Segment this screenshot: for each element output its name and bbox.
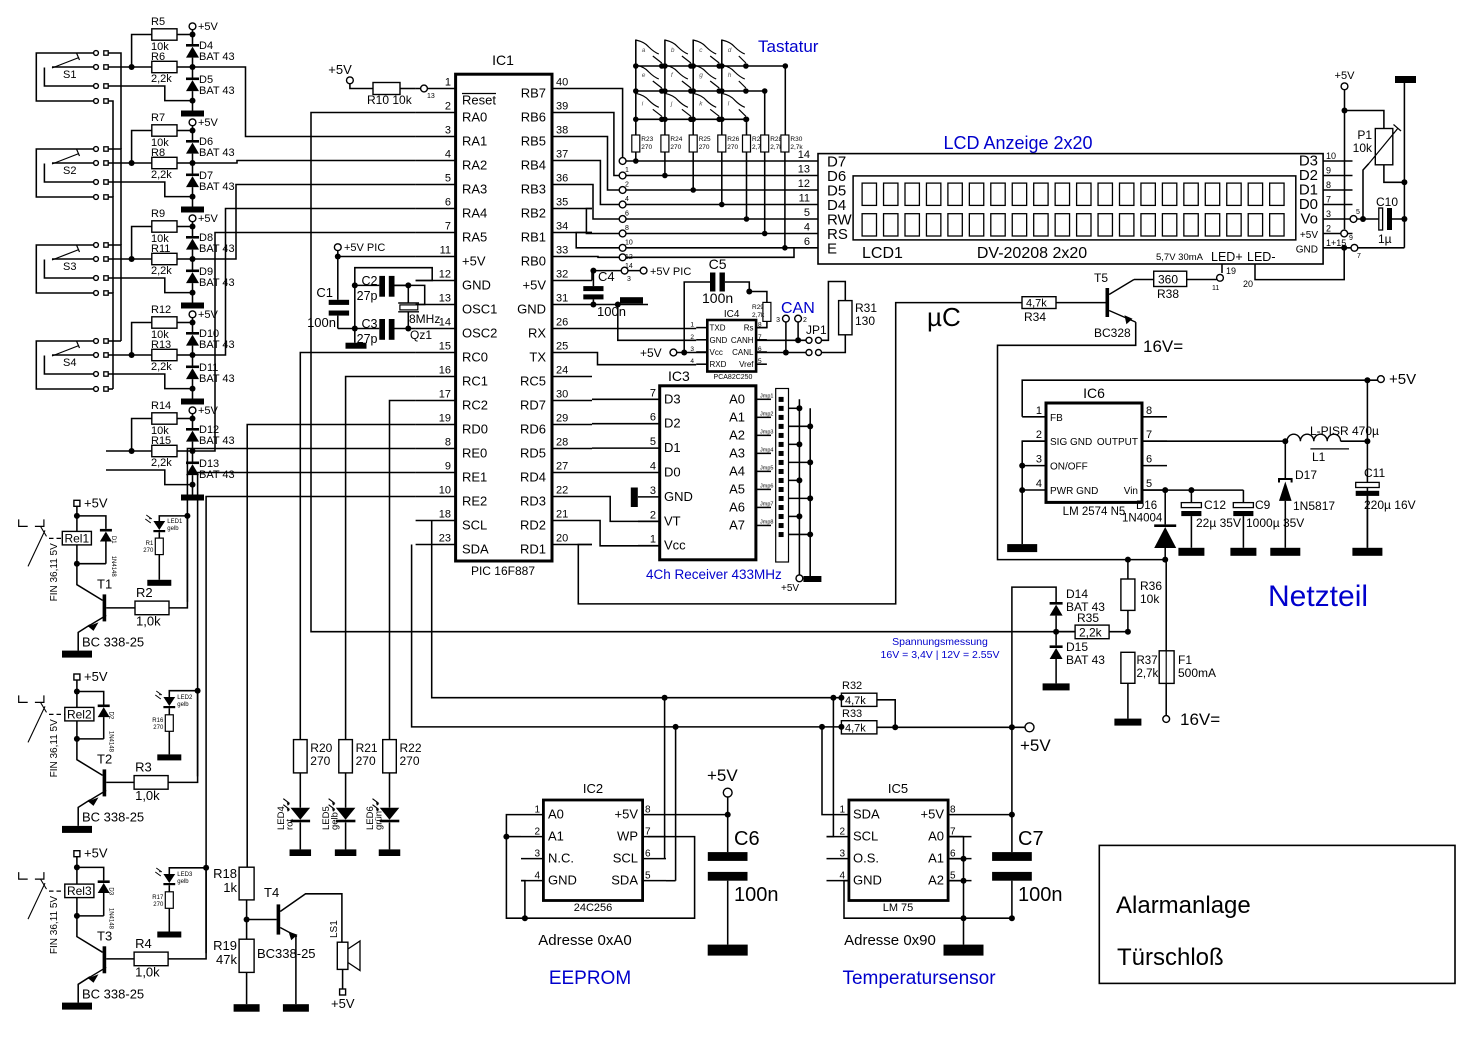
svg-text:+5V: +5V [198, 21, 219, 33]
svg-text:R38: R38 [1157, 287, 1179, 301]
wire RB2 to connector [586, 209, 622, 234]
svg-text:RE2: RE2 [462, 494, 487, 509]
resistor R17 270 [152, 885, 173, 931]
svg-text:1N4004: 1N4004 [1122, 513, 1163, 525]
svg-text:rot: rot [284, 819, 295, 830]
svg-text:270: 270 [310, 754, 330, 768]
svg-text:A2: A2 [928, 873, 944, 888]
IC1 pin 26 RX [528, 317, 592, 341]
node junction SCL R32 [838, 695, 844, 701]
wire collector to R38 [1134, 279, 1154, 281]
svg-text:1: 1 [1036, 405, 1042, 417]
wire CAN pads [797, 322, 799, 340]
node 16V= input terminal [1163, 710, 1220, 729]
op-amp IC6 LM 2574 N5 body [1046, 385, 1142, 518]
svg-text:R1: R1 [146, 541, 154, 547]
svg-text:21: 21 [556, 509, 568, 521]
svg-text:C1: C1 [316, 285, 333, 300]
ground (jumpers) [803, 576, 821, 582]
potentiometer P1 10k [1353, 125, 1401, 165]
IC1 pin 36 RB3 [521, 173, 592, 197]
svg-text:Adresse 0xA0: Adresse 0xA0 [538, 932, 631, 949]
svg-text:+5V: +5V [84, 846, 108, 861]
wire [389, 773, 391, 808]
svg-text:CANL: CANL [732, 348, 754, 357]
svg-text:SDA: SDA [462, 542, 489, 557]
node junction [129, 352, 135, 358]
capacitor C12 22µ 35V [1181, 490, 1241, 548]
svg-text:36: 36 [556, 173, 568, 185]
IC3 pin 3 GND [638, 485, 693, 504]
svg-text:17: 17 [439, 389, 451, 401]
IC1 pin 13 OSC1 [416, 293, 498, 317]
wire jumper rail right (gnd) [809, 408, 811, 576]
IC1 pin 40 RB7 [521, 77, 592, 101]
node +5V terminal (jumpers) [781, 575, 803, 594]
svg-text:1,0k: 1,0k [135, 788, 160, 803]
node junction [830, 695, 836, 701]
node junction [892, 724, 898, 730]
svg-text:Vref: Vref [739, 360, 754, 369]
svg-text:R3: R3 [135, 759, 152, 774]
IC1 pin 28 RD5 [520, 437, 592, 461]
wire to freewheel diode [77, 516, 106, 529]
IC1 pin 7 RA5 [416, 221, 488, 245]
svg-text:gelb: gelb [177, 879, 189, 885]
svg-text:GND: GND [462, 278, 491, 293]
wire keypad rows [636, 65, 786, 67]
wire IC5 GND [844, 881, 964, 945]
node +5V terminal (LS1) [331, 989, 355, 1011]
node junction [782, 245, 788, 251]
svg-text:BAT 43: BAT 43 [199, 339, 235, 351]
node junction [762, 88, 768, 94]
svg-text:26: 26 [556, 317, 568, 329]
wire jumper to rail [789, 407, 800, 409]
svg-text:RD7: RD7 [520, 398, 546, 413]
ground [62, 826, 92, 833]
wire jumper to rail [789, 497, 811, 499]
IC4 pin 5 Vref [739, 358, 767, 369]
svg-text:IC3: IC3 [668, 368, 690, 384]
wire RB1 to connector [576, 233, 622, 248]
switch S3 [36, 243, 108, 296]
transistor T1 BC 338-25 [77, 564, 144, 651]
diode D9 BAT 43 [186, 259, 235, 289]
speaker LS1 [329, 920, 360, 971]
ground [1114, 719, 1141, 726]
svg-text:4: 4 [1036, 478, 1042, 490]
node junction [662, 695, 668, 701]
svg-text:6: 6 [804, 236, 810, 248]
svg-text:+5V: +5V [1300, 230, 1318, 241]
resistor R22 270 [383, 740, 422, 773]
node junction [1401, 179, 1407, 185]
svg-text:R16: R16 [152, 718, 164, 724]
IC2 pin 3 N.C. [521, 849, 574, 866]
wire [350, 84, 373, 89]
svg-text:OSC2: OSC2 [462, 326, 497, 341]
wire OSC1 [395, 285, 425, 304]
node +5V terminal (Rel3) [74, 846, 108, 861]
switch door contact (Rel3) [19, 872, 65, 919]
IC5 pin 4 GND [827, 871, 882, 888]
wire switch common to junction [106, 470, 193, 485]
svg-text:7: 7 [1357, 253, 1361, 260]
wire [1109, 631, 1128, 633]
svg-text:22: 22 [556, 485, 568, 497]
IC4 pin 1 TXD [690, 322, 725, 333]
node +5V terminal (Netzteil output) [1378, 371, 1417, 388]
wire CANL to R31 bottom [822, 335, 846, 353]
IC5 pin 1 SDA [827, 805, 881, 822]
svg-text:14: 14 [439, 317, 451, 329]
ground [283, 1004, 309, 1012]
node pad 8 [619, 216, 629, 232]
wire GND row [1344, 247, 1351, 249]
node +5V terminal (IC4) [640, 346, 677, 360]
svg-text:D16: D16 [1136, 500, 1157, 512]
svg-text:2: 2 [445, 101, 451, 113]
wire 2.7k column risers [746, 119, 748, 135]
wire base T4 [247, 919, 277, 921]
svg-text:R9: R9 [151, 208, 165, 220]
resistor R14 10k [151, 400, 177, 437]
node junction [195, 688, 201, 694]
svg-text:4,7k: 4,7k [845, 695, 866, 707]
svg-text:100n: 100n [597, 304, 626, 319]
svg-text:9: 9 [445, 461, 451, 473]
svg-text:RXD: RXD [710, 360, 727, 369]
wire IC2 SDA up to bus [675, 727, 677, 881]
resistor R10 10k [367, 83, 413, 108]
svg-text:Tastatur: Tastatur [758, 37, 819, 56]
transistor T4 BC338-25 [257, 885, 342, 1004]
svg-text:RA0: RA0 [462, 110, 487, 125]
LCD pin 1+15 GND [1296, 238, 1353, 256]
ground [1270, 548, 1300, 556]
svg-text:270: 270 [356, 754, 376, 768]
node junction [1341, 245, 1347, 251]
node junction [796, 441, 802, 447]
wire jumper rail left (+5V) [798, 399, 800, 575]
svg-text:D3: D3 [108, 887, 114, 895]
svg-text:RC0: RC0 [462, 350, 488, 365]
IC1 pin 31 GND [517, 293, 592, 317]
svg-text:Rel1: Rel1 [64, 531, 89, 545]
svg-text:LED3: LED3 [177, 872, 193, 878]
svg-text:4Ch Receiver 433MHz: 4Ch Receiver 433MHz [646, 567, 782, 582]
node junction [1009, 812, 1015, 818]
LCD pin 13 D6 [798, 164, 846, 186]
svg-text:+5V: +5V [615, 807, 639, 822]
transistor T2 BC 338-25 [77, 739, 144, 826]
IC5 pin 8 +5V [921, 805, 972, 822]
node junction [796, 513, 802, 519]
svg-text:T2: T2 [97, 751, 112, 766]
svg-text:Vcc: Vcc [664, 538, 686, 553]
node junction [1342, 108, 1348, 114]
wire [246, 972, 248, 1004]
svg-text:RB1: RB1 [521, 230, 546, 245]
wire [132, 35, 152, 68]
IC1 pin 23 SDA [416, 533, 489, 557]
wire R38 to LED+ pad [1187, 279, 1217, 281]
wire [345, 773, 347, 808]
resistor R36 10k [1121, 560, 1162, 632]
node junction [1360, 216, 1366, 222]
svg-text:WP: WP [617, 829, 638, 844]
svg-text:IC1: IC1 [492, 52, 514, 68]
svg-text:GND: GND [664, 489, 693, 504]
svg-text:µC: µC [927, 302, 961, 332]
svg-text:8: 8 [1146, 405, 1152, 417]
svg-text:SDA: SDA [611, 873, 638, 888]
wire A0 A1 A2 rail [963, 837, 965, 919]
node junction [961, 856, 967, 862]
wire C7 rail [1011, 727, 1013, 852]
wire FB feedback line [1022, 380, 1377, 417]
resistor R31 130 [839, 301, 878, 335]
node junction [673, 724, 679, 730]
svg-text:27p: 27p [357, 289, 378, 303]
IC6 pin 1 FB [1022, 405, 1063, 424]
wire Vo row [1353, 218, 1379, 220]
node junction [352, 282, 358, 288]
svg-text:IC5: IC5 [888, 781, 908, 796]
diode D4 BAT 43 [186, 35, 235, 68]
svg-text:5: 5 [650, 436, 656, 448]
svg-text:5: 5 [1146, 478, 1152, 490]
svg-text:BC328: BC328 [1094, 326, 1131, 340]
svg-text:RD6: RD6 [520, 422, 546, 437]
node junction [203, 865, 209, 871]
resistor R35 2,2k [1056, 611, 1109, 640]
node junction [190, 98, 196, 104]
node +5V terminal (Rel2) [74, 669, 108, 684]
ground [234, 1004, 260, 1012]
node junction [1009, 915, 1015, 921]
svg-text:SIG GND: SIG GND [1050, 437, 1092, 448]
switch S1 [36, 51, 108, 104]
node +5V terminal (group 3) [189, 213, 218, 227]
wire jumper to rail [789, 515, 800, 517]
svg-text:gelb: gelb [330, 812, 341, 830]
node junction [719, 202, 725, 208]
wire S3 node to IC1 RA3 [193, 185, 416, 260]
resistor R21 270 [339, 740, 378, 773]
IC6 pin 2 SIG GND [1022, 429, 1092, 448]
node junction [74, 913, 80, 919]
LED LED1 gelb [145, 515, 183, 532]
svg-text:25: 25 [556, 341, 568, 353]
node junction [522, 915, 528, 921]
LCD pin 10 D3 [1299, 151, 1353, 170]
IC5 pin 7 A0 [928, 827, 971, 844]
diode D14 BAT 43 [1050, 587, 1106, 632]
svg-text:RX: RX [528, 326, 546, 341]
svg-text:1: 1 [690, 322, 694, 329]
ground [1043, 683, 1070, 690]
wire [299, 773, 301, 808]
wire OUTPUT to L1 [1142, 440, 1287, 442]
wire base [1056, 302, 1106, 304]
node junction [1364, 438, 1370, 444]
wire P1 bottom to gnd bus [1384, 165, 1405, 183]
crystal Qz1 8MHz [398, 285, 440, 342]
IC2 pin 4 GND [521, 871, 577, 888]
wire relay coil to junction [76, 545, 78, 564]
relay Rel1 [62, 531, 91, 545]
svg-text:9: 9 [1349, 235, 1353, 242]
node junction [190, 128, 196, 134]
svg-text:RB4: RB4 [521, 158, 546, 173]
wire keypad columns [635, 40, 637, 136]
svg-text:GND: GND [853, 873, 882, 888]
svg-text:5: 5 [645, 871, 651, 882]
IC1 pin 5 RA3 [416, 173, 488, 197]
wire RX to TXD [592, 328, 696, 330]
svg-text:20: 20 [556, 533, 568, 545]
wire connector row [623, 189, 818, 191]
resistor R5 10k [151, 16, 177, 53]
svg-text:11: 11 [1212, 285, 1219, 292]
svg-text:RD0: RD0 [462, 422, 488, 437]
wire T5 emitter 16V [998, 322, 1167, 559]
svg-text:Jmp6: Jmp6 [760, 483, 773, 489]
wire [177, 418, 193, 420]
title box Alarmanlage Tuerschloss [1099, 845, 1455, 983]
node junction [190, 290, 196, 296]
svg-text:5: 5 [758, 358, 762, 365]
node junction [74, 864, 80, 870]
wire [76, 857, 78, 884]
switch key row1 col2 [662, 40, 694, 69]
svg-text:RC2: RC2 [462, 398, 488, 413]
LED LED4 rot [276, 799, 310, 830]
svg-text:RB5: RB5 [521, 134, 546, 149]
wire RB0 to connector [592, 256, 623, 259]
svg-text:7: 7 [1146, 429, 1152, 441]
ground [379, 849, 401, 856]
wire +5V pin11 [337, 251, 339, 257]
IC3 pin 7 D3 [592, 387, 681, 406]
wire switch bus [108, 245, 121, 341]
wire switch bus [108, 149, 121, 245]
wire connector row [623, 175, 818, 177]
svg-text:Jmp7: Jmp7 [760, 501, 773, 507]
switch key row3 col2 [662, 93, 694, 122]
svg-text:1: 1 [445, 77, 451, 89]
svg-text:4: 4 [804, 222, 810, 234]
svg-text:+5V: +5V [1020, 736, 1051, 755]
svg-text:g: g [699, 72, 703, 79]
resistor R34 4,7k [1022, 297, 1056, 324]
node junction [796, 405, 802, 411]
node +5V terminal (group 5) [189, 405, 218, 419]
node junction [405, 282, 411, 288]
wire connector row [623, 204, 818, 206]
IC2 pin 5 SDA [611, 871, 666, 888]
ground [147, 580, 171, 586]
switch key row2 col1 [633, 65, 665, 94]
svg-text:BAT 43: BAT 43 [199, 85, 235, 97]
node junction [1162, 487, 1168, 493]
svg-text:22µ 35V: 22µ 35V [1196, 516, 1241, 530]
switch key row3 col3 [690, 93, 722, 122]
wire switch bus [108, 53, 121, 149]
svg-text:JP1: JP1 [806, 323, 827, 337]
svg-text:LED-: LED- [1247, 250, 1275, 264]
wire RE0 to Rel1 driver [187, 449, 415, 602]
wire connector row [623, 233, 818, 235]
wire [192, 91, 194, 110]
wire relay coil to junction [76, 898, 78, 916]
svg-text:R17: R17 [152, 895, 164, 901]
relay Rel3 [65, 884, 94, 898]
wire C5 left to Vcc [684, 282, 710, 353]
svg-text:E: E [827, 240, 837, 257]
node junction [807, 423, 813, 429]
LED LED3 gelb [155, 868, 193, 885]
IC5 pin 3 O.S. [827, 849, 880, 866]
svg-text:FIN 36,11 5V: FIN 36,11 5V [49, 543, 60, 602]
resistor R28 2,7k [761, 135, 784, 152]
svg-text:9: 9 [1326, 166, 1331, 176]
svg-text:A0: A0 [928, 829, 944, 844]
wire [345, 822, 347, 849]
node junction [1364, 377, 1370, 383]
svg-text:270: 270 [641, 144, 652, 151]
node junction [807, 495, 813, 501]
svg-text:RD2: RD2 [520, 518, 546, 533]
ground (pin31) [620, 297, 643, 304]
svg-text:1: 1 [839, 805, 845, 816]
svg-text:11: 11 [799, 193, 810, 205]
svg-text:BAT 43: BAT 43 [199, 51, 235, 63]
switch S4 [36, 339, 108, 392]
wire [246, 900, 248, 939]
capacitor C10 1µ [1376, 195, 1398, 246]
svg-text:8: 8 [950, 805, 956, 816]
svg-text:3: 3 [1326, 209, 1331, 219]
svg-text:2,2k: 2,2k [151, 457, 172, 469]
switch key row2 col3 [690, 65, 722, 94]
IC3 pin A0 [729, 391, 771, 406]
svg-text:Türschloß: Türschloß [1117, 944, 1224, 971]
svg-text:2,7k: 2,7k [752, 312, 765, 319]
connector jumper block Jmp1-Jmp8 [760, 389, 788, 563]
resistor R3 1,0k [134, 759, 168, 803]
svg-text:RA3: RA3 [462, 182, 487, 197]
wire R15 node to IC1 RA5 [193, 233, 416, 452]
svg-text:R35: R35 [1077, 611, 1099, 625]
node junction [1053, 629, 1059, 635]
wire IC5 SDA to bus [822, 727, 827, 815]
node junction [190, 320, 196, 326]
svg-text:Jmp5: Jmp5 [760, 465, 773, 471]
svg-text:33: 33 [556, 245, 568, 257]
wire switch common to junction [106, 86, 193, 101]
wire [784, 152, 786, 248]
wire +5V line [877, 726, 1026, 728]
svg-text:P1: P1 [1357, 128, 1372, 142]
resistor R11 2,2k [151, 243, 177, 277]
svg-text:16V = 3,4V | 12V = 2.55V: 16V = 3,4V | 12V = 2.55V [881, 649, 1000, 661]
svg-text:BAT 43: BAT 43 [199, 147, 235, 159]
svg-text:LCD Anzeige 2x20: LCD Anzeige 2x20 [943, 133, 1092, 153]
LED LED5 gelb [321, 799, 355, 830]
